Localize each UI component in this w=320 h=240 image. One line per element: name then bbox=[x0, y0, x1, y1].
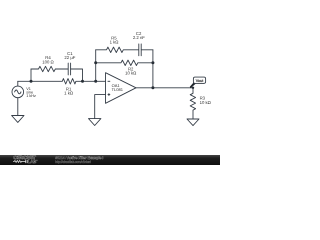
voltage source V1 bbox=[12, 86, 24, 98]
resistor R3 vertical with wires bbox=[190, 88, 195, 119]
node junction dot (C1 to R1 line) bbox=[81, 80, 84, 83]
label C2 2.2 nF bbox=[133, 31, 145, 40]
wire C2 right bbox=[141, 49, 153, 51]
label R1 1 kΩ bbox=[64, 87, 73, 96]
op-amp OA1 triangle bbox=[106, 73, 137, 104]
resistor R2 with wires bbox=[96, 60, 153, 65]
svg-text:TL081: TL081 bbox=[112, 87, 124, 92]
wire C1 right to node bbox=[71, 69, 83, 81]
svg-text:1 kHz: 1 kHz bbox=[26, 94, 36, 98]
wire inverting input line with resistor R1 zigzag bbox=[18, 79, 106, 84]
svg-text:22 µF: 22 µF bbox=[64, 55, 75, 60]
wire branch stem up from node bbox=[30, 69, 32, 81]
node junction dot (inverting input) bbox=[94, 80, 97, 83]
node junction dot (feedback left R2) bbox=[94, 61, 97, 64]
svg-text:http://circuitlab.com/c5xkeri: http://circuitlab.com/c5xkeri bbox=[55, 160, 91, 164]
wire feedback left vertical bbox=[95, 50, 97, 82]
resistor R5 with wires bbox=[96, 47, 139, 52]
capacitor C2 bbox=[139, 44, 141, 56]
logo CIRCUIT LAB bbox=[13, 155, 37, 164]
node junction dot (feedback right R2) bbox=[151, 61, 154, 64]
capacitor C1 bbox=[68, 63, 70, 75]
label R5 1 kΩ bbox=[110, 36, 119, 45]
label R2 10 kΩ bbox=[125, 67, 136, 76]
label OA1 TL081 bbox=[112, 83, 124, 92]
wire V1 top stem bbox=[17, 81, 19, 86]
footer caption text bbox=[55, 156, 103, 164]
ground (op-amp + input) bbox=[89, 119, 101, 126]
label C1 22 µF bbox=[64, 51, 75, 60]
ground (below V1) bbox=[12, 116, 24, 123]
svg-text:LAB: LAB bbox=[28, 159, 37, 164]
wire op-amp + input to ground bbox=[95, 95, 106, 119]
svg-text:Vout: Vout bbox=[196, 79, 205, 83]
op-amp minus pin mark bbox=[108, 80, 111, 82]
node A junction dot (V1/R4/R1) bbox=[30, 80, 33, 83]
svg-text:1 kΩ: 1 kΩ bbox=[110, 40, 119, 45]
svg-text:1 kΩ: 1 kΩ bbox=[64, 91, 73, 96]
node junction dot (output) bbox=[151, 86, 154, 89]
svg-text:10 kΩ: 10 kΩ bbox=[200, 100, 211, 105]
wire feedback right vertical bbox=[152, 50, 154, 88]
wire output line bbox=[136, 87, 193, 89]
wire V1 ground lead bbox=[17, 98, 19, 116]
label R4 100 Ω bbox=[42, 55, 53, 64]
resistor R4 with wires bbox=[31, 66, 68, 71]
label R3 10 kΩ bbox=[200, 96, 211, 105]
node Vout flag bbox=[190, 77, 206, 88]
label V1 bbox=[26, 87, 36, 98]
svg-text:100 Ω: 100 Ω bbox=[42, 59, 53, 64]
svg-text:10 kΩ: 10 kΩ bbox=[125, 71, 136, 76]
svg-text:2.2 nF: 2.2 nF bbox=[133, 35, 145, 40]
node junction dot (Vout/R3) bbox=[192, 87, 194, 89]
op-amp plus pin mark bbox=[108, 93, 111, 96]
ground (below R3) bbox=[187, 119, 199, 126]
